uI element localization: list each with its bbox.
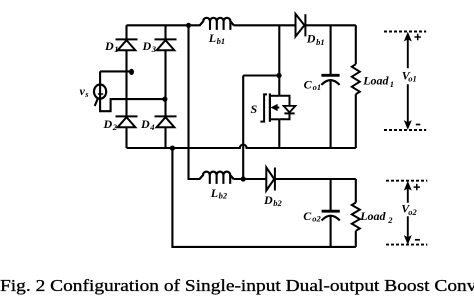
svg-text:1: 1	[114, 44, 118, 54]
svg-text:2: 2	[387, 215, 393, 225]
svg-text:D: D	[306, 32, 316, 46]
svg-text:o1: o1	[313, 82, 322, 92]
svg-text:o2: o2	[408, 207, 417, 217]
svg-text:D: D	[104, 39, 114, 53]
svg-text:Load: Load	[359, 209, 386, 223]
svg-text:o1: o1	[408, 74, 417, 84]
svg-text:D: D	[140, 117, 150, 131]
svg-text:o2: o2	[312, 213, 321, 223]
svg-text:D: D	[103, 117, 113, 131]
svg-text:C: C	[304, 77, 313, 91]
svg-text:b1: b1	[217, 36, 226, 46]
svg-text:L: L	[210, 186, 218, 200]
svg-text:D: D	[142, 39, 152, 53]
svg-text:2: 2	[112, 122, 118, 132]
svg-text:1: 1	[390, 79, 394, 89]
svg-text:3: 3	[151, 44, 157, 54]
svg-text:b2: b2	[273, 198, 282, 208]
svg-text:4: 4	[149, 122, 154, 132]
svg-text:b2: b2	[219, 191, 228, 201]
svg-text:D: D	[263, 193, 273, 207]
svg-text:S: S	[251, 102, 258, 116]
svg-text:C: C	[303, 209, 312, 223]
svg-text:s: s	[84, 89, 89, 99]
svg-text:b1: b1	[316, 37, 325, 47]
svg-text:Fig. 2 Configuration of Single: Fig. 2 Configuration of Single-input Dua…	[0, 276, 474, 295]
svg-text:L: L	[208, 31, 216, 45]
svg-text:Load: Load	[362, 74, 389, 88]
